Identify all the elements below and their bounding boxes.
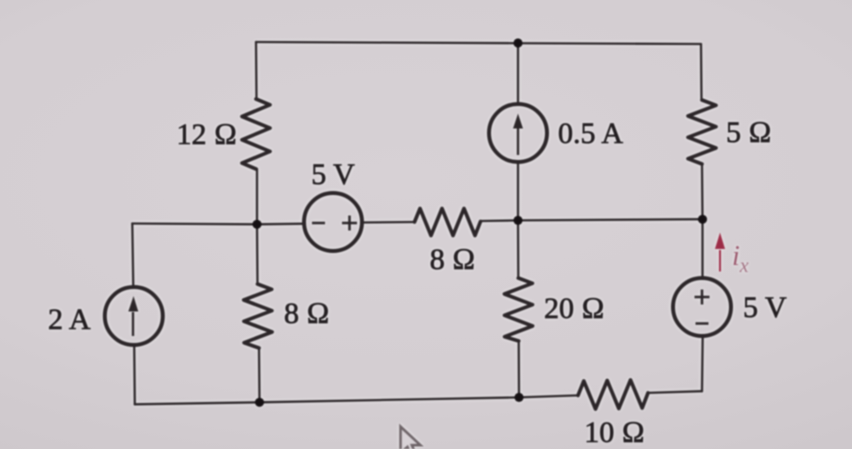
current source I1 2A circle <box>105 287 163 345</box>
label ix (maroon italic) <box>732 241 749 277</box>
svg-text:0.5 A: 0.5 A <box>558 117 623 150</box>
node middle-center <box>513 216 522 225</box>
wire 0.5A bottom lead <box>517 161 519 221</box>
wire 20-ohm bottom lead <box>518 341 521 397</box>
wire 12-ohm bottom lead <box>256 169 258 225</box>
svg-text:5 V: 5 V <box>311 158 355 191</box>
current arrow ix (maroon) <box>715 233 725 272</box>
label 5 V (middle source) <box>311 158 355 191</box>
label 10 ohm <box>584 416 645 449</box>
svg-text:8 Ω: 8 Ω <box>430 243 476 276</box>
node top (0.5A branch / top wire) <box>513 38 522 47</box>
resistor 8 ohm vertical <box>244 284 272 348</box>
wire 8-ohm vertical bottom lead <box>258 348 261 402</box>
label 5 ohm <box>726 116 772 149</box>
wire right 5V top lead <box>701 219 703 279</box>
svg-text:2 A: 2 A <box>48 303 91 336</box>
wire 2A bottom lead <box>133 344 136 404</box>
svg-text:8 Ω: 8 Ω <box>284 297 330 330</box>
node middle-right <box>698 215 707 224</box>
wire 8-ohm vertical top lead <box>256 224 259 284</box>
voltage source V1 5V circle (middle) <box>304 193 362 251</box>
svg-text:10 Ω: 10 Ω <box>584 416 645 449</box>
node middle-left (12 ohm / middle wire) <box>252 220 261 229</box>
wire 5-ohm top lead <box>700 44 703 100</box>
resistor 12 ohm <box>242 99 270 169</box>
wire bottom: node to 10-ohm <box>519 395 578 397</box>
wire middle: node to 5V source <box>257 223 305 226</box>
svg-text:5 V: 5 V <box>743 291 787 324</box>
wire 0.5A top lead <box>517 43 519 105</box>
svg-text:20 Ω: 20 Ω <box>544 292 605 325</box>
wire middle: 8-ohm to center node <box>481 219 519 222</box>
mouse cursor <box>401 427 421 449</box>
svg-text:12 Ω: 12 Ω <box>176 118 237 151</box>
node bottom-left (8 ohm / bottom wire) <box>255 398 264 407</box>
resistor 10 ohm <box>578 380 648 409</box>
node bottom-center (20 ohm / bottom wire) <box>514 393 523 402</box>
wire middle left stub to 2A branch <box>132 222 257 225</box>
svg-text:5 Ω: 5 Ω <box>726 116 772 149</box>
polarity marks of 5V source (middle): minus left, plus right <box>312 216 357 231</box>
label 0.5 A <box>558 117 623 150</box>
wire bottom: left run <box>135 397 519 404</box>
current source I2 0.5A circle <box>489 104 547 162</box>
resistor 5 ohm <box>688 100 716 164</box>
wire left branch of 12-ohm (top) <box>255 42 258 99</box>
svg-text:ix: ix <box>732 241 749 277</box>
label 8 ohm (vertical resistor) <box>284 297 330 330</box>
label 12 ohm <box>176 118 237 151</box>
wire middle: center node to right node <box>518 219 703 220</box>
label 20 ohm <box>544 292 605 325</box>
wire top horizontal <box>256 42 701 44</box>
resistor 20 ohm <box>504 278 532 341</box>
wire right 5V bottom lead <box>701 335 704 391</box>
wire 5-ohm bottom lead <box>701 164 704 219</box>
arrow of current source 2A <box>128 296 138 336</box>
label 5 V (right source) <box>743 291 787 324</box>
label 2 A <box>48 303 91 336</box>
wire bottom: 10-ohm to right corner <box>648 391 702 393</box>
arrow of current source 0.5A <box>513 114 523 156</box>
resistor 8 ohm horizontal <box>415 209 481 236</box>
voltage source V2 5V circle (right) <box>673 278 731 336</box>
wire 20-ohm top lead <box>517 220 520 278</box>
wire 2A top lead <box>132 224 133 289</box>
wire middle: 5V source to 8-ohm <box>361 221 415 224</box>
polarity marks of 5V source (right): plus top, minus bottom <box>695 290 710 324</box>
label 8 ohm (horizontal resistor) <box>430 243 476 276</box>
